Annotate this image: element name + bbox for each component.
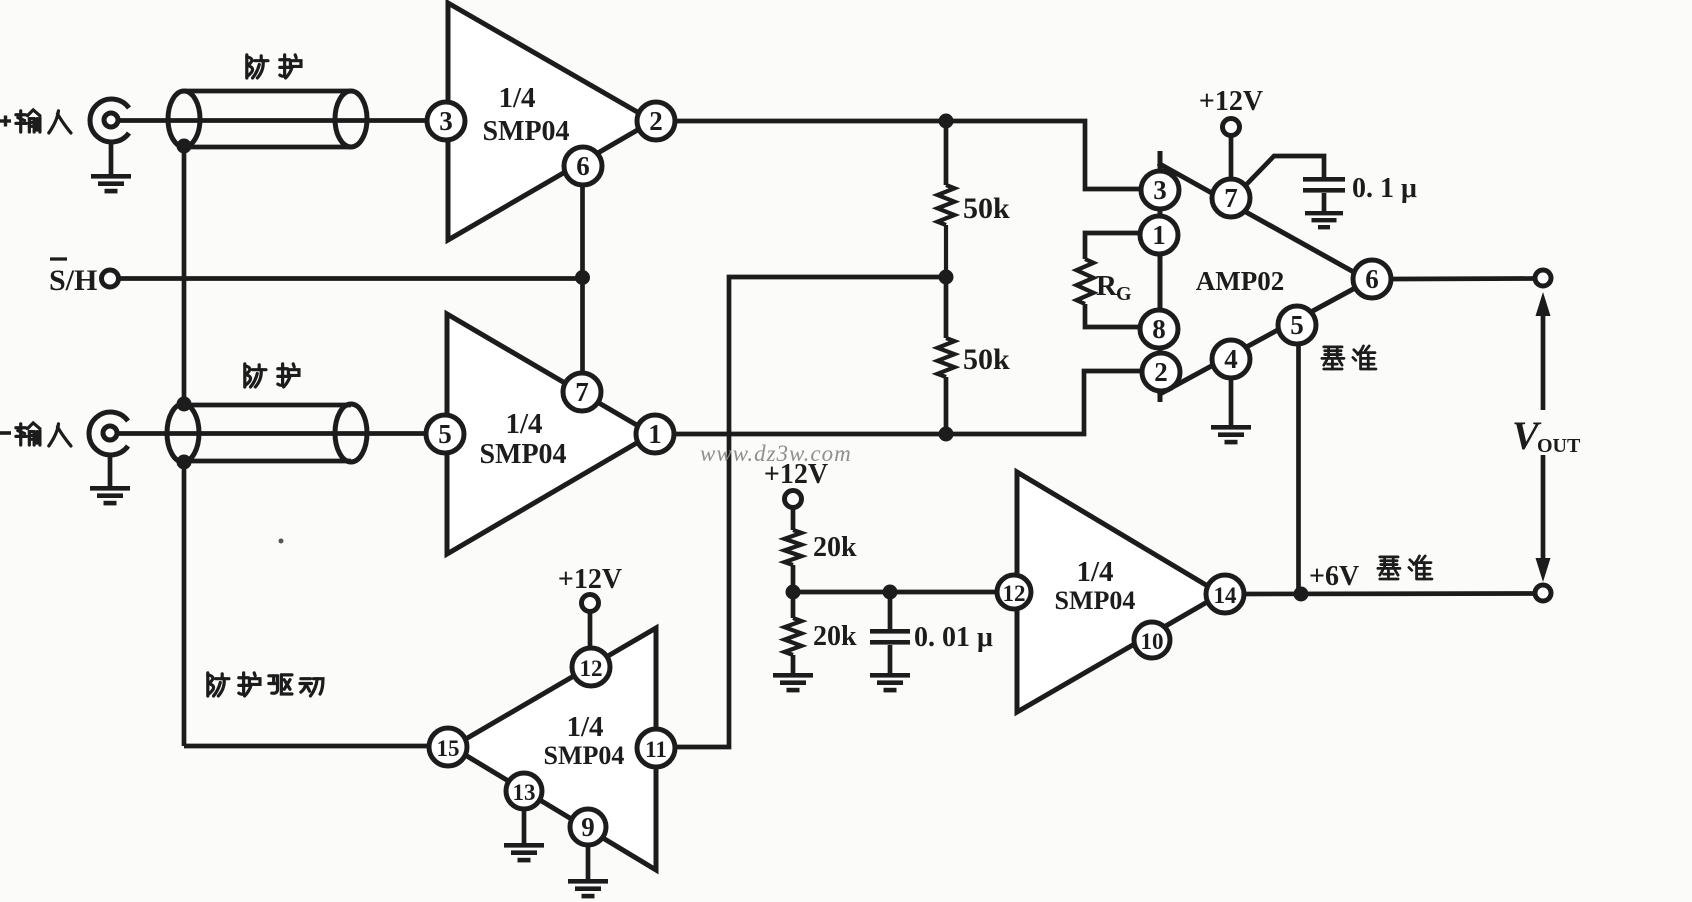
svg-text:1: 1 <box>1152 220 1166 250</box>
pin 8 of AMP02 <box>1140 310 1178 348</box>
shielded cable guard top (+input) <box>168 91 367 147</box>
wire pin2 output to 50k and AMP02 pin3 corner <box>665 121 1152 189</box>
label U4 SMP04 <box>544 741 625 770</box>
wire S/H line <box>118 276 583 281</box>
label U3 1/4 <box>1076 556 1113 588</box>
svg-text:SMP04: SMP04 <box>544 741 625 770</box>
svg-text:2: 2 <box>649 106 663 136</box>
node junction 50k bottom / pin1 line <box>939 427 954 442</box>
pin 12 of U4 <box>572 648 610 686</box>
pin 15 of U4 <box>429 728 467 766</box>
pin 1 of AMP02 <box>1140 216 1178 254</box>
wire -input from BNC to pin 5 <box>116 431 436 436</box>
node junction +6V / pin5 <box>1294 587 1309 602</box>
svg-text:7: 7 <box>575 377 589 407</box>
node guard at cable2 shield top <box>177 397 192 412</box>
pin 1 of U2 <box>636 415 674 453</box>
svg-text:+6V: +6V <box>1309 561 1359 592</box>
label U2 1/4 <box>505 408 542 440</box>
terminal S/H input <box>102 270 119 287</box>
watermark <box>700 441 852 466</box>
ground at U4 pin 9 <box>568 845 608 898</box>
label 0.1u <box>1352 173 1417 204</box>
node junction 50k midpoint <box>939 270 954 285</box>
in-amp AMP02 body <box>1158 151 1368 402</box>
pin 2 of AMP02 <box>1142 353 1180 391</box>
node junction S/H with pin6-pin7 line <box>575 270 590 285</box>
label RG <box>1096 270 1132 305</box>
ground at divider <box>773 673 813 692</box>
arrow VOUT up <box>1536 292 1551 410</box>
svg-text:12: 12 <box>1003 581 1026 606</box>
pin 14 of U3 <box>1206 575 1244 613</box>
resistor 50k R2 <box>938 277 955 434</box>
svg-text:50k: 50k <box>963 343 1010 376</box>
wire AMP02 pin5 vertical <box>1296 344 1301 594</box>
pin 11 of U4 <box>637 729 675 767</box>
pin 6 of AMP02 <box>1353 260 1391 298</box>
label 50k R1 <box>963 192 1010 225</box>
ground at AMP02 pin4 <box>1211 378 1251 444</box>
node cap junction <box>883 585 898 600</box>
svg-text:5: 5 <box>438 419 452 449</box>
label +6V <box>1309 561 1359 592</box>
pin 3 of U1 <box>427 102 465 140</box>
svg-text:3: 3 <box>1153 175 1167 205</box>
label U2 SMP04 <box>479 439 566 470</box>
pin 7 of U2 <box>563 373 601 411</box>
svg-text:G: G <box>1116 283 1132 305</box>
resistor 20k R3 <box>785 530 802 592</box>
pin 2 of U1 <box>637 102 675 140</box>
wire 50k chain upper segment <box>944 121 949 185</box>
op-amp U1 1/4 SMP04 triangle <box>448 3 653 240</box>
node divider midpoint <box>786 585 801 600</box>
svg-text:6: 6 <box>576 151 590 181</box>
svg-text:20k: 20k <box>813 621 857 652</box>
power +12V at U4 pin 12 <box>558 564 622 660</box>
svg-text:4: 4 <box>1224 344 1238 374</box>
svg-text:5: 5 <box>1290 310 1304 340</box>
svg-text:SMP04: SMP04 <box>479 439 566 470</box>
terminal +6V reference <box>1535 585 1551 601</box>
label reference 1 (ji zhun) <box>1322 346 1376 369</box>
capacitor C1 0.1u <box>1243 156 1345 212</box>
wire pin14 output +6V line <box>1240 591 1535 596</box>
svg-text:S/H: S/H <box>49 264 97 297</box>
shielded cable guard bottom (-input) <box>167 404 367 462</box>
wire guard shield vertical <box>184 146 438 746</box>
pin 6 of U1 <box>564 147 602 185</box>
op-amp U3 1/4 SMP04 triangle <box>1017 472 1221 712</box>
pin 5 of AMP02 <box>1278 306 1316 344</box>
svg-text:9: 9 <box>581 812 595 842</box>
svg-text:1: 1 <box>648 419 662 449</box>
label U3 SMP04 <box>1055 586 1136 615</box>
wire 50k midpoint to guard-drive vertical <box>667 277 946 747</box>
label U4 1/4 <box>566 711 603 743</box>
svg-text:11: 11 <box>645 737 667 762</box>
node junction pin2/50k top <box>939 114 954 129</box>
resistor 20k R4 <box>785 592 802 674</box>
op-amp U2 1/4 SMP04 triangle <box>447 314 652 554</box>
node guard at cable2 shield bottom <box>177 455 192 470</box>
pin 12 of U3 <box>997 575 1031 609</box>
wire AMP02 pin1 to RG <box>1085 233 1152 259</box>
ground at J2 <box>90 454 130 505</box>
svg-text:+12V: +12V <box>558 564 622 595</box>
arrow VOUT down <box>1536 558 1551 582</box>
connector J2 -input BNC <box>89 412 128 455</box>
svg-text:7: 7 <box>1224 183 1238 213</box>
label AMP02 <box>1196 266 1284 296</box>
svg-text:20k: 20k <box>813 532 857 563</box>
power +12V at AMP02 pin7 <box>1199 86 1263 185</box>
label +input (+ shu ru) <box>0 110 71 133</box>
svg-text:15: 15 <box>437 736 460 761</box>
label U1 1/4 <box>498 82 535 114</box>
svg-text:10: 10 <box>1141 629 1164 654</box>
label reference 2 (ji zhun) <box>1378 556 1432 579</box>
wire divider to pin 12 <box>793 590 1005 595</box>
resistor 50k R1 <box>938 185 955 277</box>
label 20k R3 <box>813 532 857 563</box>
capacitor C2 0.01u <box>870 592 910 674</box>
wire AMP02 pin6 output <box>1391 276 1535 281</box>
speck <box>279 539 284 544</box>
pin 13 of U4 <box>506 773 542 809</box>
svg-text:0. 01 μ: 0. 01 μ <box>914 622 993 653</box>
pin 9 of U4 <box>570 809 606 845</box>
wire +input from BNC to pin 3 <box>117 118 437 123</box>
pin 7 of AMP02 <box>1212 179 1250 217</box>
svg-text:8: 8 <box>1152 314 1166 344</box>
resistor RG <box>1077 259 1153 327</box>
svg-text:50k: 50k <box>963 192 1010 225</box>
label guard drive (fang hu qu dong) <box>208 673 323 696</box>
node guard at cable1 shield <box>177 139 192 154</box>
label -input (- shu ru) <box>0 423 71 446</box>
svg-text:OUT: OUT <box>1537 435 1581 457</box>
label 50k R2 <box>963 343 1010 376</box>
ground at C2 <box>870 673 910 692</box>
pin 4 of AMP02 <box>1212 340 1250 378</box>
label S/H <box>49 259 97 297</box>
svg-text:1/4: 1/4 <box>566 711 603 743</box>
svg-text:2: 2 <box>1154 357 1168 387</box>
op-amp U4 1/4 SMP04 triangle (guard drive) <box>452 628 656 870</box>
label guard top (fang hu) <box>247 55 301 78</box>
svg-text:SMP04: SMP04 <box>482 116 569 147</box>
svg-text:AMP02: AMP02 <box>1196 266 1284 296</box>
svg-text:12: 12 <box>580 656 603 681</box>
terminal VOUT top <box>1535 270 1551 286</box>
ground at C1 <box>1305 211 1343 229</box>
label 0.01u <box>914 622 993 653</box>
svg-text:R: R <box>1096 270 1118 302</box>
svg-text:www.dz3w.com: www.dz3w.com <box>700 441 852 466</box>
pin 3 of AMP02 <box>1141 171 1179 209</box>
svg-text:3: 3 <box>439 106 453 136</box>
label U1 SMP04 <box>482 116 569 147</box>
label VOUT <box>1512 413 1581 458</box>
wire pin1 output to AMP02 pin2 <box>665 371 1152 434</box>
label 20k R4 <box>813 621 857 652</box>
svg-text:+12V: +12V <box>1199 86 1263 117</box>
svg-text:1/4: 1/4 <box>505 408 542 440</box>
ground at J1 <box>91 141 131 193</box>
wire pin6 to pin7 vertical <box>580 167 585 392</box>
svg-text:14: 14 <box>1214 583 1238 608</box>
svg-text:1/4: 1/4 <box>1076 556 1113 588</box>
svg-text:SMP04: SMP04 <box>1055 586 1136 615</box>
pin 5 of U2 <box>426 415 464 453</box>
svg-text:6: 6 <box>1365 264 1379 294</box>
wire VOUT lower segment <box>1541 455 1546 558</box>
label guard bottom (fang hu) <box>245 364 299 387</box>
connector J1 +input BNC <box>90 99 129 142</box>
power +12V at divider <box>764 459 828 530</box>
svg-text:0. 1 μ: 0. 1 μ <box>1352 173 1417 204</box>
ground at U4 pin 13 <box>504 808 544 862</box>
svg-text:13: 13 <box>513 780 536 805</box>
pin 10 of U3 <box>1134 622 1170 658</box>
svg-text:1/4: 1/4 <box>498 82 535 114</box>
